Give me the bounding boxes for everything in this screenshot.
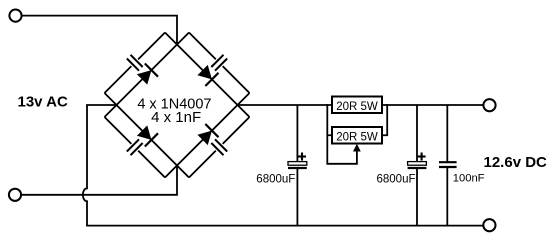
svg-text:20R 5W: 20R 5W (336, 132, 378, 144)
diode D2 (1N4007) top-right arm, pointing to right vertex (197, 65, 212, 80)
wire bridge left vertex to DC negative rail (with hop over AC wire) (83, 105, 483, 226)
input terminal AC top (9, 10, 21, 22)
svg-text:20R 5W: 20R 5W (336, 101, 378, 113)
svg-text:6800uF: 6800uF (377, 173, 416, 185)
bridge outer line + snubber capacitor (1nF) top-left arm (138, 33, 165, 60)
input terminal AC bottom (9, 189, 21, 201)
svg-text:6800uF: 6800uF (256, 173, 295, 185)
capacitor C3 100nF (446, 105, 448, 162)
output terminal DC positive (483, 99, 495, 111)
capacitor C2 6800uF electrolytic (416, 105, 418, 162)
output terminal DC negative (483, 219, 495, 231)
capacitor C1 6800uF electrolytic (296, 105, 298, 162)
wire tap with arrow into R2 bottom (327, 135, 357, 164)
bridge outer line + snubber capacitor (1nF) bottom-left arm (105, 117, 132, 144)
wire from AC bottom terminal to bridge bottom vertex (21, 166, 177, 195)
bridge outer line + snubber capacitor (1nF) top-right arm (189, 33, 216, 60)
diode D4 (1N4007) bottom-right arm, pointing to right vertex (197, 131, 212, 146)
bridge inner line L-T extended (diode D1 path) (105, 33, 190, 118)
resistor R2 20R 5W (parallel box below) (332, 127, 382, 144)
bridge inner line R-B extended (diode D4 path) (165, 93, 250, 178)
svg-text:100nF: 100nF (453, 172, 485, 184)
diode D1 (1N4007) top-left arm, pointing to top vertex (137, 70, 152, 85)
wire from AC top terminal to bridge top vertex (22, 16, 177, 45)
svg-text:4 x 1nF: 4 x 1nF (151, 109, 201, 126)
svg-text:13v AC: 13v AC (18, 94, 68, 111)
bridge outer line + snubber capacitor (1nF) bottom-right arm (223, 117, 250, 144)
bridge inner line T-R extended (diode D2 path) (165, 33, 250, 118)
wire DC positive rail from bridge right vertex (238, 104, 484, 106)
wire rail to R2 right terminal (382, 104, 387, 135)
arrow head pointing up at R2 bottom (353, 144, 361, 152)
wire rail to R2 left terminal (327, 104, 332, 135)
bridge inner line L-B extended (diode D3 path) (105, 93, 190, 178)
svg-text:12.6v DC: 12.6v DC (484, 154, 548, 171)
diode D3 (1N4007) bottom-left arm, pointing to bottom vertex (137, 125, 152, 140)
resistor R1 20R 5W (box in series on rail) (332, 97, 382, 114)
